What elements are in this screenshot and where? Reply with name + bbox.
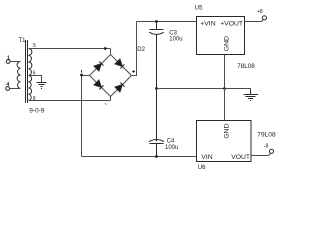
wire U5 gnd stem [224, 54, 226, 89]
transformer secondary winding top half [29, 49, 32, 76]
wire bridge right vertex to plus rail [132, 22, 137, 76]
wire bottom minus rail [82, 156, 197, 158]
diode TR [115, 59, 125, 69]
wire mid ground rail [157, 88, 251, 90]
node dot bridge left [80, 74, 83, 77]
node dot C3 top [155, 20, 158, 23]
ground (mid rail) [244, 89, 259, 101]
wire primary top tap [10, 61, 20, 63]
node dot on pin5 wire [104, 47, 107, 50]
capacitor C3 [149, 22, 164, 89]
svg-text:100u: 100u [165, 145, 178, 151]
wire bridge bottom stub [110, 97, 112, 101]
svg-text:U6: U6 [198, 165, 206, 171]
svg-text:+VIN: +VIN [200, 21, 215, 28]
capacitor C4 [149, 89, 164, 157]
bridge rectifier D2 frame [90, 55, 132, 97]
svg-text:+VOUT: +VOUT [220, 21, 243, 28]
svg-text:100u: 100u [169, 37, 182, 43]
wire bridge top stub [110, 49, 112, 55]
svg-text:-8: -8 [264, 144, 269, 150]
svg-text:4: 4 [6, 82, 9, 88]
wire U6 output [251, 153, 270, 155]
bridge plus pin mark [132, 70, 135, 73]
transformer primary winding [17, 62, 20, 89]
transformer T1 core [26, 40, 28, 103]
connector pin 1 (primary top) [6, 60, 10, 64]
svg-text:78L08: 78L08 [237, 63, 255, 70]
regulator U6 box [197, 121, 252, 162]
connector pin -8 [269, 149, 273, 153]
connector pin 4 (primary bottom) [6, 87, 10, 91]
svg-text:U5: U5 [195, 6, 203, 12]
svg-text:GND: GND [223, 123, 230, 138]
svg-text:+8: +8 [257, 9, 263, 15]
svg-text:VIN: VIN [201, 154, 212, 161]
wire U6 gnd stem [224, 89, 226, 121]
node dot C4 bottom [155, 155, 158, 158]
wire top plus rail [137, 21, 197, 23]
svg-text:D2: D2 [137, 47, 145, 53]
transformer secondary winding bottom half [29, 76, 32, 101]
svg-text:1: 1 [7, 55, 10, 61]
wire U5 output [245, 20, 264, 22]
svg-text:C3: C3 [169, 31, 177, 37]
wire secondary center tap [29, 76, 42, 83]
svg-text:9-0-9: 9-0-9 [29, 108, 45, 115]
wire bridge left vertex to minus rail [82, 76, 90, 157]
connector pin +8 [262, 16, 266, 20]
node dot regulators gnd [223, 87, 226, 90]
svg-text:79L08: 79L08 [257, 131, 276, 138]
svg-text:T1: T1 [19, 38, 27, 44]
wire secondary pin5 to bridge top [29, 48, 111, 50]
svg-text:8: 8 [33, 96, 36, 102]
ground (transformer center tap) [37, 83, 47, 89]
bridge minus pin mark [81, 70, 83, 73]
svg-text:VOUT: VOUT [231, 154, 250, 161]
node dot mid rail C3/C4 [155, 87, 158, 90]
diode BR [115, 83, 125, 93]
diode BL [94, 80, 104, 90]
svg-text:GND: GND [223, 36, 230, 51]
svg-text:~: ~ [104, 102, 107, 108]
regulator U5 box [197, 17, 245, 55]
svg-text:C4: C4 [167, 139, 175, 145]
wire primary bottom tap [10, 88, 21, 90]
wire secondary pin8 to bridge bottom [29, 100, 111, 102]
diode TL [94, 62, 104, 72]
